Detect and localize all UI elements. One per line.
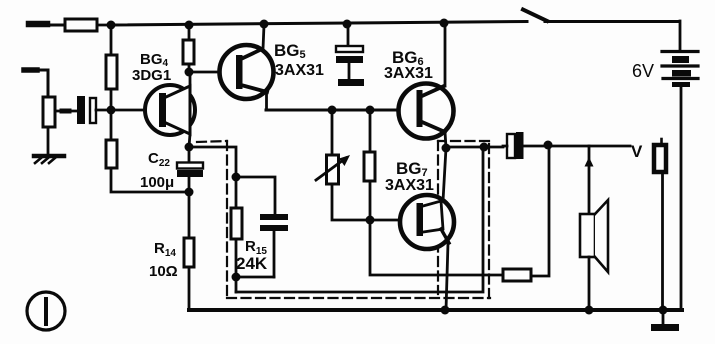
wire BG6 emitter [445, 132, 446, 148]
svg-text:100μ: 100μ [140, 174, 174, 191]
wire feedback down [370, 220, 503, 275]
svg-text:6V: 6V [632, 61, 654, 81]
node BG5 base [185, 68, 194, 77]
wire [369, 181, 372, 220]
capacitor bypass top [336, 25, 364, 86]
wire BG4 emitter down [189, 134, 190, 147]
wire speaker bottom [588, 257, 591, 310]
wire bias upper [110, 25, 113, 55]
wire R14 bottom [188, 267, 191, 310]
wire bias lower lead [110, 110, 113, 140]
wire [236, 177, 275, 214]
resistor bias lower [106, 140, 117, 168]
battery B 6V [662, 52, 698, 88]
wire [446, 146, 503, 149]
node [585, 306, 594, 315]
wire battery top lead [679, 21, 682, 51]
wire BG5 base [189, 71, 236, 74]
svg-text:3AX31: 3AX31 [384, 65, 433, 82]
wire [235, 277, 238, 292]
wire BG7 collector [443, 148, 446, 201]
node varR top [328, 106, 337, 115]
resistor RP variable [316, 155, 350, 184]
wire [47, 127, 50, 153]
jack socket [654, 139, 666, 310]
resistor R15 [231, 208, 242, 239]
node base BG4 [107, 106, 116, 115]
resistor top-left horizontal [65, 19, 97, 31]
node [659, 306, 668, 315]
wire battery bottom lead [680, 87, 683, 310]
ground left [34, 156, 64, 163]
svg-text:3AX31: 3AX31 [385, 177, 434, 194]
wire to base node [96, 109, 160, 112]
capacitor C parallel R15 [260, 214, 288, 277]
node top rail [185, 21, 194, 30]
resistor output series [503, 269, 531, 281]
transistor BG7 [400, 195, 454, 249]
transistor BG4 [145, 85, 195, 135]
wire [332, 184, 417, 220]
wire R14 top [188, 192, 191, 238]
wire BG7 emitter [446, 243, 448, 310]
node [260, 20, 269, 29]
node top rail left junction [107, 21, 116, 30]
svg-text:C22: C22 [148, 150, 170, 169]
wire [331, 110, 334, 155]
svg-text:24K: 24K [236, 254, 268, 273]
figure number circled 1 [27, 292, 65, 330]
wire BG5 emitter to mid rail [265, 91, 268, 110]
wire top input stub [29, 24, 65, 25]
node BG7 emitter bottom [441, 306, 450, 315]
wire [188, 25, 191, 40]
wire [531, 146, 549, 276]
wire speaker top lead with arrow [585, 146, 594, 214]
node BG6 emitter [442, 144, 451, 153]
wire BG4 collector up [189, 73, 192, 86]
node [440, 19, 449, 28]
svg-text:3DG1: 3DG1 [132, 67, 171, 84]
wire R15 bottom tie [236, 276, 274, 279]
wire BG4 emitter feedback [189, 147, 236, 177]
resistor BG7 bias [364, 152, 375, 181]
resistor R14 [184, 238, 194, 267]
antenna input stub [24, 70, 48, 97]
wire output down [236, 147, 483, 292]
wire L to C22 node [111, 168, 189, 192]
svg-text:V: V [631, 142, 643, 161]
wire to V [548, 145, 630, 148]
node [343, 20, 352, 29]
svg-text:BG7: BG7 [396, 159, 428, 179]
node C22 bottom [185, 188, 194, 197]
wire coil tap [55, 110, 78, 113]
resistor bias upper [106, 55, 117, 89]
wire [188, 64, 191, 72]
switch S [523, 10, 679, 22]
wire [235, 177, 238, 208]
wire [369, 110, 372, 152]
node [544, 141, 553, 150]
node R top [366, 106, 375, 115]
resistor BG5 base bias [183, 40, 194, 64]
wire mid rail [266, 109, 418, 112]
node R15 bottom [232, 273, 241, 282]
svg-text:BG5: BG5 [274, 41, 306, 61]
wire top rail [111, 22, 527, 26]
transistor BG5 [220, 45, 274, 99]
capacitor C22 [177, 147, 203, 192]
ground right [651, 310, 679, 331]
transistor BG6 [399, 84, 454, 139]
wire BG5 collector [263, 25, 264, 49]
speaker LS [580, 200, 608, 272]
node BG7 base [366, 216, 375, 225]
wire bottom rail [189, 308, 682, 312]
svg-text:R14: R14 [154, 240, 176, 259]
node R15 top [232, 173, 241, 182]
node BG4 emitter [185, 143, 194, 152]
wire [235, 239, 238, 277]
node output [480, 143, 489, 152]
svg-text:3AX31: 3AX31 [275, 62, 324, 79]
wire BG6 collector [444, 23, 447, 86]
svg-text:10Ω: 10Ω [149, 263, 178, 280]
dashed feedback outline [197, 141, 490, 299]
wire [110, 89, 113, 110]
capacitor output [503, 132, 548, 159]
wire [97, 24, 111, 27]
coil L1 [43, 97, 55, 127]
capacitor C input [77, 96, 96, 124]
